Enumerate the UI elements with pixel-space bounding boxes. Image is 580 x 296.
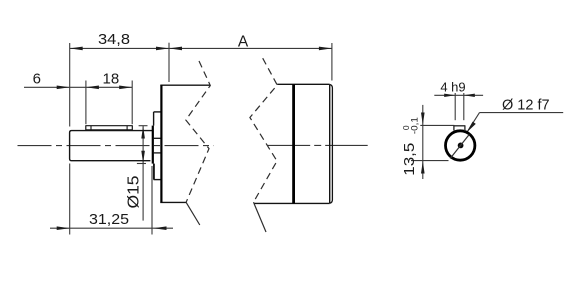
svg-text:34,8: 34,8 [98,31,130,48]
svg-text:-0,1: -0,1 [409,117,419,134]
svg-text:4 h9: 4 h9 [440,79,465,94]
svg-text:A: A [238,34,249,51]
svg-text:13,5: 13,5 [401,143,418,176]
svg-text:18: 18 [103,70,120,87]
svg-text:Ø 12 f7: Ø 12 f7 [502,98,550,114]
svg-text:31,25: 31,25 [89,211,129,228]
svg-text:6: 6 [33,70,41,87]
svg-text:Ø15: Ø15 [125,176,142,209]
